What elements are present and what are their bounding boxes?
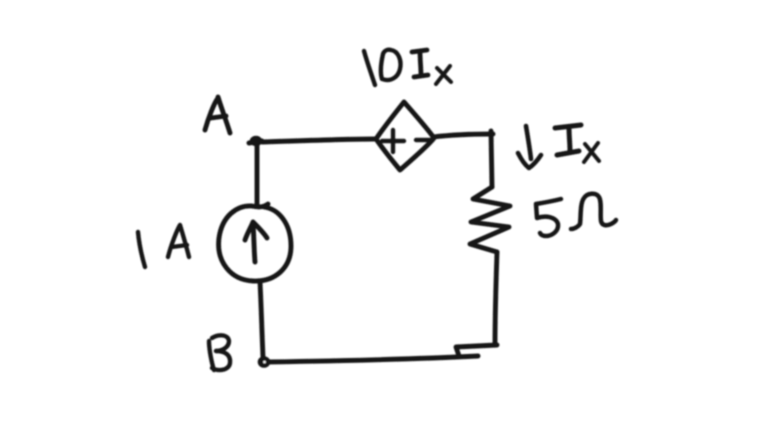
current source I1 circle [219,204,291,281]
current arrow Ix [518,126,541,168]
wire: node A to dependent source [262,139,375,142]
bottom-right jog wire [456,345,497,356]
plus sign inside U1 [382,130,404,152]
node A label [205,97,230,133]
minus sign inside U1 [416,138,430,142]
wire: node A down to current source [255,144,260,206]
dependent source U1 diamond [376,102,434,170]
label 5 ohm [536,194,616,236]
label 1 A [138,225,189,267]
wire: right side down to resistor [491,131,492,187]
arrow inside current source [245,222,267,262]
resistor R1 zigzag [470,187,510,252]
label 10Ix [364,50,451,85]
wire: dependent source to top-right corner [433,134,493,137]
node B junction [258,356,271,368]
wire: node B up to current source [260,282,263,357]
node B label [209,335,230,370]
node A junction [249,136,262,146]
label Ix [555,125,599,162]
wire: resistor to bottom-right corner [495,252,497,345]
bottom wire to node B [267,356,478,362]
